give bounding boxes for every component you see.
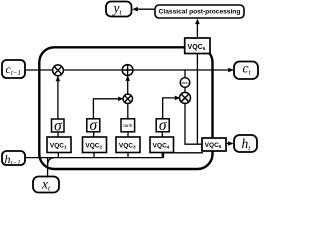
- wire: VQC4 stub to bus: [161, 153, 163, 158]
- arrowhead into forget multiplier: [56, 76, 61, 81]
- svg-text:σ: σ: [89, 117, 98, 134]
- node h_{t-1}: [2, 151, 25, 167]
- gate: forget multiplier (circle-X): [53, 65, 64, 76]
- wire: output-gate product down and right into VQC5: [185, 103, 202, 144]
- node y_t: [106, 0, 132, 16]
- box VQC2: [83, 137, 107, 153]
- svg-text:VQC2: VQC2: [85, 142, 102, 149]
- node x_t: [33, 176, 59, 192]
- svg-text:tanh: tanh: [182, 81, 189, 85]
- svg-text:VQC1: VQC1: [50, 142, 67, 149]
- gate: adder (circle-plus): [122, 65, 133, 76]
- svg-text:σ: σ: [54, 117, 63, 134]
- node c_t: [234, 60, 258, 79]
- box tanh3: [121, 119, 135, 132]
- wire: VQC4 to sigma4: [161, 132, 163, 137]
- wire: VQC3 stub to bus: [127, 153, 129, 158]
- svg-text:VQC6: VQC6: [188, 44, 206, 51]
- node h_t: [234, 135, 257, 152]
- arrowhead into classical post-processing: [195, 19, 200, 24]
- wire: VQC1 to sigma1: [57, 132, 59, 137]
- wire: VQC5 to h_t: [226, 143, 232, 145]
- wire: cell line tap down to tanh circle: [184, 70, 186, 78]
- wire: VQC2 to sigma2: [93, 132, 95, 137]
- svg-text:σ: σ: [159, 117, 168, 134]
- box VQC5 (on right border): [202, 138, 226, 151]
- box VQC4: [150, 137, 174, 153]
- wire: input-gate multiplier up to adder: [127, 76, 129, 94]
- wire: bus jog into VQC5: [164, 153, 204, 158]
- wire: classical post-processing to y_t: [134, 8, 155, 10]
- svg-text:VQC4: VQC4: [153, 142, 170, 149]
- box VQC3: [116, 137, 140, 153]
- svg-text:VQC3: VQC3: [119, 142, 136, 149]
- LSTM cell boundary (rounded rectangle): [39, 47, 212, 169]
- gate: tanh circle: [180, 78, 190, 88]
- box classical post-processing: [155, 5, 244, 18]
- wire: tanh circle to output-gate multiplier: [184, 87, 186, 92]
- box VQC6 (on top border): [185, 38, 210, 54]
- wire: VQC1 stub to bus: [57, 153, 59, 158]
- arrowhead into y_t: [132, 7, 138, 12]
- wire: VQC2 stub to bus: [93, 153, 95, 158]
- gate: input multiplier (circle-X): [123, 94, 132, 103]
- arrowhead into c_t: [228, 68, 234, 73]
- box sigma4: [156, 117, 169, 134]
- wire: cell state line c: [25, 69, 233, 71]
- node c_{t-1}: [2, 60, 25, 78]
- wire: sigma2 up and right to input-gate multiplier: [93, 99, 122, 119]
- svg-text:Classical post-processing: Classical post-processing: [159, 9, 241, 16]
- box VQC1: [47, 137, 71, 153]
- box sigma1: [52, 117, 65, 134]
- arrowhead into input multiplier: [118, 97, 123, 102]
- wire: tanh3 up to input-gate multiplier: [127, 104, 129, 119]
- svg-text:tanh: tanh: [123, 123, 132, 128]
- gate: output multiplier (circle-X): [180, 92, 191, 103]
- arrowhead into adder: [125, 76, 130, 81]
- wire: VQC6 up to classical post-processing: [196, 20, 198, 38]
- wire: branch up to VQC6: [196, 54, 198, 145]
- svg-text:VQC5: VQC5: [205, 142, 222, 149]
- wire: h/x input bus: [25, 157, 164, 159]
- arrowhead into output multiplier: [175, 96, 180, 101]
- arrowhead into h_t: [228, 141, 234, 146]
- wire: x_t riser joining bus: [48, 158, 54, 177]
- wire: sigma4 up and right to output-gate multiplier: [163, 98, 179, 119]
- wire: VQC3 to tanh3: [127, 132, 129, 137]
- box sigma2: [87, 117, 100, 134]
- wire: sigma1 up to forget-gate multiplier: [57, 76, 59, 119]
